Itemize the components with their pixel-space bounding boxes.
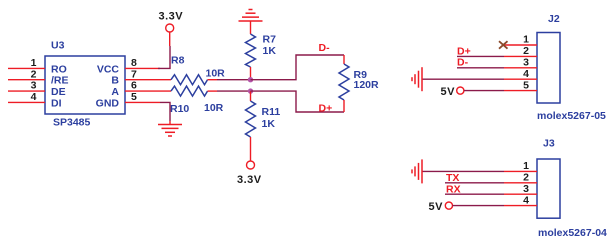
svg-text:2: 2 bbox=[523, 172, 529, 184]
connector J3 bbox=[504, 138, 607, 240]
svg-text:1: 1 bbox=[523, 160, 529, 172]
svg-text:R11: R11 bbox=[262, 106, 281, 118]
pin 5 GND bbox=[125, 101, 160, 103]
svg-text:DI: DI bbox=[51, 97, 62, 109]
svg-text:A: A bbox=[111, 86, 119, 98]
svg-text:J2: J2 bbox=[548, 13, 560, 25]
resistor R10 10R bbox=[170, 86, 224, 115]
svg-text:DE: DE bbox=[51, 86, 66, 98]
svg-text:1K: 1K bbox=[262, 118, 276, 130]
node junction on D- line bbox=[248, 77, 253, 82]
resistor R11 1K bbox=[246, 91, 281, 161]
svg-text:TX: TX bbox=[446, 172, 459, 184]
svg-text:R8: R8 bbox=[171, 55, 185, 67]
svg-text:SP3485: SP3485 bbox=[53, 117, 91, 129]
svg-text:5: 5 bbox=[523, 79, 529, 91]
svg-text:4: 4 bbox=[523, 68, 529, 80]
svg-text:7: 7 bbox=[131, 68, 137, 80]
svg-text:B: B bbox=[111, 75, 119, 87]
wire D- to J2 pin3 bbox=[457, 67, 504, 69]
svg-text:6: 6 bbox=[131, 80, 137, 92]
svg-text:10R: 10R bbox=[204, 102, 224, 114]
pin 2 bbox=[504, 182, 537, 184]
resistor R7 1K bbox=[246, 34, 277, 80]
pin 1 bbox=[504, 44, 537, 46]
wire TX to J3 pin2 bbox=[445, 182, 504, 184]
svg-text:VCC: VCC bbox=[97, 63, 120, 75]
pin 2 /RE bbox=[8, 79, 45, 81]
resistor R8 10R bbox=[171, 55, 225, 85]
svg-text:2: 2 bbox=[31, 68, 37, 80]
svg-text:/RE: /RE bbox=[51, 75, 69, 87]
wire gnd to J2 pin4 bbox=[422, 78, 504, 80]
svg-text:4: 4 bbox=[31, 91, 37, 103]
no connect X bbox=[499, 41, 508, 49]
pin 3 bbox=[504, 193, 537, 195]
wire D+ to J2 pin2 bbox=[457, 55, 504, 57]
svg-text:D-: D- bbox=[457, 57, 469, 69]
svg-text:U3: U3 bbox=[51, 40, 65, 52]
pin 3 bbox=[504, 67, 537, 69]
wire R10 to node bbox=[217, 90, 251, 92]
svg-text:1: 1 bbox=[523, 34, 529, 46]
svg-text:1K: 1K bbox=[263, 45, 277, 57]
power port 3.3V top bbox=[159, 11, 184, 47]
node junction on D+ line bbox=[248, 88, 253, 93]
pin 4 DI bbox=[8, 101, 45, 103]
svg-text:D+: D+ bbox=[319, 103, 333, 115]
pin 1 RO bbox=[8, 67, 45, 69]
pin 4 bbox=[504, 205, 537, 207]
svg-text:3: 3 bbox=[31, 80, 37, 92]
svg-text:3: 3 bbox=[523, 57, 529, 69]
svg-text:10R: 10R bbox=[206, 68, 226, 80]
pin 5 bbox=[504, 90, 537, 92]
ground (J3 pin1, sideways) bbox=[412, 159, 422, 183]
power port 5V (J3 pin4) bbox=[429, 201, 453, 213]
svg-text:molex5267-04: molex5267-04 bbox=[538, 227, 607, 239]
svg-text:D+: D+ bbox=[457, 45, 471, 57]
wire gnd to J3 pin1 bbox=[422, 170, 504, 172]
pin 6 A bbox=[125, 90, 171, 92]
svg-text:R10: R10 bbox=[170, 103, 189, 115]
svg-text:molex5267-05: molex5267-05 bbox=[537, 110, 606, 122]
wire VCC to 3.3V bbox=[158, 46, 170, 68]
wire 5V to J3 pin4 bbox=[453, 205, 505, 207]
ground (top, above R7) bbox=[239, 10, 263, 35]
pin 7 B bbox=[125, 79, 171, 81]
svg-text:2: 2 bbox=[523, 45, 529, 57]
svg-text:RX: RX bbox=[446, 183, 461, 195]
pin 4 bbox=[504, 78, 537, 80]
connector J2 bbox=[499, 13, 606, 122]
svg-text:4: 4 bbox=[523, 194, 529, 206]
svg-text:5V: 5V bbox=[429, 201, 444, 213]
wire 5V to J2 pin5 bbox=[464, 90, 504, 92]
svg-text:GND: GND bbox=[96, 97, 120, 109]
ground (J2 pin4, sideways) bbox=[412, 67, 422, 91]
pin 1 bbox=[504, 170, 537, 172]
power port 5V (J2 pin5) bbox=[441, 86, 464, 98]
svg-text:3.3V: 3.3V bbox=[159, 11, 184, 23]
power port 3.3V bottom bbox=[237, 161, 262, 186]
svg-text:1: 1 bbox=[31, 57, 37, 69]
pin 2 bbox=[504, 55, 537, 57]
svg-text:RO: RO bbox=[51, 63, 67, 75]
svg-text:120R: 120R bbox=[354, 79, 380, 91]
wire node to D+ corner bbox=[251, 91, 345, 112]
ground (chip GND) bbox=[158, 102, 182, 136]
pin 8 VCC bbox=[125, 67, 160, 69]
svg-text:3.3V: 3.3V bbox=[237, 174, 262, 186]
pin 3 DE bbox=[8, 90, 45, 92]
wire R8 to node bbox=[217, 79, 251, 81]
svg-text:5V: 5V bbox=[441, 86, 456, 98]
wire RX to J3 pin3 bbox=[445, 193, 504, 195]
svg-text:J3: J3 bbox=[543, 138, 555, 150]
svg-text:R7: R7 bbox=[263, 34, 277, 46]
wire node to D- corner bbox=[251, 55, 345, 80]
svg-text:3: 3 bbox=[523, 183, 529, 195]
svg-text:5: 5 bbox=[131, 91, 137, 103]
op-amp U1 bbox=[8, 40, 171, 129]
svg-text:D-: D- bbox=[319, 42, 331, 54]
svg-text:8: 8 bbox=[131, 57, 137, 69]
resistor R9 120R bbox=[339, 55, 379, 112]
IC U3 body bbox=[45, 56, 125, 114]
